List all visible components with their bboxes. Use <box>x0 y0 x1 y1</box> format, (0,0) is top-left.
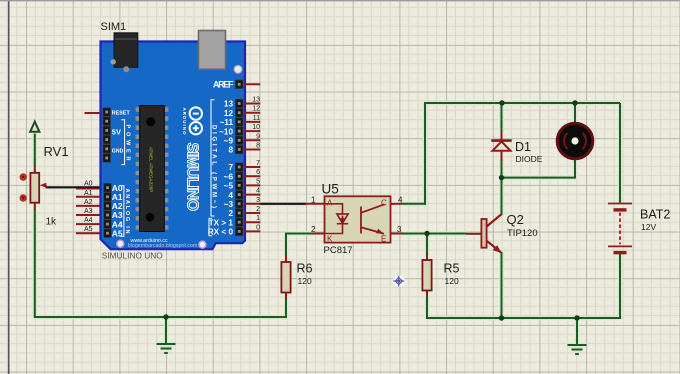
U5 internal LED <box>325 204 349 234</box>
Arduino digital pin 12 stub <box>244 112 260 114</box>
svg-text:3: 3 <box>256 197 260 204</box>
svg-text:C: C <box>381 199 387 208</box>
U5 pin 3 (E) <box>391 233 403 235</box>
transistor Q2 base stub <box>466 233 481 235</box>
wire R6 top up <box>285 234 287 257</box>
svg-text:120: 120 <box>298 276 312 286</box>
potentiometer RV1 adjust buttons <box>20 173 27 180</box>
wire halo layer <box>34 103 620 354</box>
resistor R6 body <box>281 262 290 293</box>
svg-text:ANALOG IN: ANALOG IN <box>124 189 130 234</box>
wire RV1 bottom down <box>34 210 36 318</box>
battery BAT2 dashed link <box>619 213 621 245</box>
svg-text:SIMULINO UNO: SIMULINO UNO <box>102 251 163 261</box>
Arduino digital pin 3 stub <box>244 203 260 205</box>
wire motor bottom link <box>502 177 576 179</box>
svg-text:D1: D1 <box>515 140 531 154</box>
wire top rail <box>424 102 620 104</box>
wire ground right stub <box>576 318 578 345</box>
Arduino board SIM1 outline <box>101 42 246 250</box>
svg-text:U5: U5 <box>322 182 339 197</box>
power terminal arrow above RV1 <box>30 122 39 132</box>
wire D1 bottom to junction <box>501 160 503 178</box>
svg-text:2: 2 <box>311 225 316 234</box>
Arduino logo <box>190 107 202 134</box>
svg-text:A: A <box>327 199 333 208</box>
svg-text:blogembarcado.blogspot.com: blogembarcado.blogspot.com <box>128 243 198 249</box>
Arduino power header pins <box>103 108 111 117</box>
Arduino TX RX bracket <box>209 218 212 235</box>
svg-text:A1: A1 <box>84 190 93 197</box>
wire R6 bottom <box>285 297 287 319</box>
Arduino analog header pins <box>104 183 112 192</box>
svg-text:E: E <box>381 235 386 244</box>
wire R6 to U5 pin K <box>285 233 313 235</box>
op-amp U5 optocoupler PC817 box <box>325 196 391 242</box>
svg-text:~5: ~5 <box>224 182 234 191</box>
svg-text:Q2: Q2 <box>507 212 524 227</box>
svg-text:13: 13 <box>224 100 234 109</box>
origin marker <box>393 275 405 287</box>
svg-text:6: 6 <box>256 169 260 176</box>
svg-text:9: 9 <box>256 133 260 140</box>
wire battery top <box>619 103 621 203</box>
wire R5 bottom <box>426 297 428 319</box>
svg-text:5V: 5V <box>112 128 121 137</box>
resistor R5 pins <box>426 254 428 260</box>
svg-text:12: 12 <box>252 106 260 113</box>
svg-text:12V: 12V <box>641 222 656 232</box>
node junction left rail / ground <box>163 314 168 319</box>
Arduino ANALOG IN bracket <box>121 186 124 237</box>
svg-text:~11: ~11 <box>220 118 234 127</box>
svg-text:10: 10 <box>252 124 260 131</box>
Arduino digital pin 8 stub <box>244 149 260 151</box>
svg-text:8: 8 <box>228 146 233 155</box>
svg-text:RESET: RESET <box>112 110 131 116</box>
node junction right rail / ground <box>574 315 579 320</box>
Arduino A2 pin stub <box>76 205 104 207</box>
svg-text:TIP120: TIP120 <box>507 228 538 239</box>
Arduino digital pin 10 stub <box>244 130 260 132</box>
resistor R6 pins <box>285 256 287 262</box>
svg-text:SIM1: SIM1 <box>101 21 127 33</box>
Arduino digital pin 1 stub <box>244 221 260 223</box>
Arduino digital pin 11 stub <box>244 121 260 123</box>
svg-text:~3: ~3 <box>224 200 234 209</box>
diode D1 cathode bar <box>491 139 511 142</box>
svg-text:1: 1 <box>256 215 260 222</box>
Arduino A0 pin stub <box>76 188 104 190</box>
wire motor top stub <box>574 103 576 123</box>
svg-text:4: 4 <box>256 188 260 195</box>
svg-text:1k: 1k <box>46 217 58 228</box>
svg-text:A2: A2 <box>84 199 93 206</box>
Arduino A3 pin stub <box>76 214 104 216</box>
svg-text:2: 2 <box>228 209 233 218</box>
svg-text:8: 8 <box>256 143 260 150</box>
Arduino digital header pins <box>235 80 243 89</box>
node junction R5 top <box>424 231 429 236</box>
resistor R5 body <box>422 260 431 291</box>
node junction Q2 emitter / rail <box>499 315 504 320</box>
wire U5 pin C up <box>424 103 426 205</box>
svg-text:K: K <box>327 235 333 244</box>
wire junction to R5 top <box>426 234 428 257</box>
Arduino digital pin 2 stub <box>244 212 260 214</box>
U5 pin 1 (A) <box>305 203 325 205</box>
svg-text:BAT2: BAT2 <box>640 208 670 222</box>
battery BAT2 plates <box>608 204 632 253</box>
svg-text:~9: ~9 <box>224 137 234 146</box>
diode D1 pins <box>501 131 503 140</box>
motor body <box>557 123 593 159</box>
sheet border top <box>0 0 680 2</box>
svg-text:DIODE: DIODE <box>516 154 543 164</box>
Arduino digital pin 9 stub <box>244 139 260 141</box>
wire bottom-left rail <box>34 316 286 318</box>
U5 pin 4 (C) <box>391 203 403 205</box>
svg-text:0: 0 <box>256 224 260 231</box>
diode D1 triangle <box>493 142 511 151</box>
svg-text:ATMEL: ATMEL <box>149 147 154 162</box>
Arduino DIGITAL PWM bracket <box>211 100 215 216</box>
svg-text:SIMULINO: SIMULINO <box>184 143 201 212</box>
Arduino power jack <box>114 33 138 68</box>
potentiometer RV1 wiper arrow <box>40 183 46 188</box>
svg-text:AREF: AREF <box>213 80 234 90</box>
wire battery bottom <box>619 254 621 320</box>
wire bottom-right rail <box>426 317 620 319</box>
svg-text:A5: A5 <box>84 226 93 233</box>
Arduino mounting hole bottom-mid <box>199 241 206 248</box>
wire RV1 top to power terminal <box>34 134 36 167</box>
svg-text:3: 3 <box>397 225 402 234</box>
Arduino mounting hole top-right <box>234 65 242 73</box>
svg-text:A3: A3 <box>84 208 93 215</box>
svg-text:TX > 1: TX > 1 <box>209 218 234 227</box>
svg-text:5: 5 <box>256 178 260 185</box>
potentiometer RV1 pins <box>34 165 36 210</box>
svg-text:A4: A4 <box>84 217 93 224</box>
wire D1 junction to Q2 collector <box>501 178 503 216</box>
svg-text:4: 4 <box>398 195 403 204</box>
Arduino digital pin 4 stub <box>244 194 260 196</box>
transistor Q2 collector <box>487 214 502 226</box>
wire U5 pin E to Q2 base <box>402 233 467 235</box>
svg-text:ARDUINO: ARDUINO <box>182 108 187 136</box>
Arduino USB connector <box>199 31 226 70</box>
Arduino RESET pin stub <box>85 112 105 114</box>
svg-text:R6: R6 <box>297 262 313 276</box>
wire motor bottom stub <box>574 159 576 179</box>
svg-text:~6: ~6 <box>224 172 234 181</box>
svg-text:PC817: PC817 <box>324 245 353 256</box>
node junction D1 / motor <box>499 175 504 180</box>
wire D1 top <box>501 103 503 132</box>
Arduino A5 pin stub <box>76 232 104 234</box>
Arduino POWER bracket <box>121 120 124 165</box>
ground (right) <box>568 345 587 354</box>
Arduino ATMEGA328 chip <box>136 106 169 232</box>
Arduino digital pin 7 stub <box>244 166 260 168</box>
svg-text:2: 2 <box>256 206 260 213</box>
svg-text:R5: R5 <box>444 262 460 276</box>
svg-text:ATMEGA328P: ATMEGA328P <box>149 163 154 192</box>
svg-text:A0: A0 <box>84 181 93 188</box>
svg-text:1: 1 <box>311 195 316 204</box>
transistor Q2 emitter <box>487 241 501 253</box>
Arduino A1 pin stub <box>76 196 104 198</box>
svg-text:13: 13 <box>252 97 260 104</box>
wire U5 pin C right <box>402 203 427 205</box>
Arduino mounting hole bottom-left <box>117 240 124 247</box>
wire RV1 wiper to Arduino A0 <box>46 185 105 190</box>
Arduino AREF pin stub <box>244 83 260 85</box>
node junction top rail / D1 <box>499 100 504 105</box>
transistor Q2 base bar <box>481 219 486 248</box>
motor brush arcs <box>564 133 568 149</box>
svg-text:12: 12 <box>224 109 234 118</box>
svg-text:120: 120 <box>445 276 459 286</box>
sheet border left <box>8 0 10 374</box>
potentiometer RV1 body <box>30 173 39 203</box>
wire Q2 emitter down <box>501 252 503 318</box>
svg-text:7: 7 <box>228 163 233 172</box>
svg-text:7: 7 <box>256 160 260 167</box>
svg-text:RV1: RV1 <box>44 144 69 159</box>
Arduino digital pin 0 stub <box>244 230 260 232</box>
Arduino A4 pin stub <box>76 223 104 225</box>
svg-text:11: 11 <box>253 115 260 122</box>
ground (left) <box>157 344 176 353</box>
wire ground left stub <box>165 317 167 344</box>
svg-text:~10: ~10 <box>219 127 233 136</box>
svg-text:4: 4 <box>228 191 233 200</box>
Arduino digital pin 13 stub <box>244 103 260 105</box>
wire Arduino pin3 to U5 pin A <box>260 202 307 207</box>
Arduino digital pin 5 stub <box>244 184 260 186</box>
Arduino digital pin 6 stub <box>244 175 260 177</box>
svg-text:GND: GND <box>112 148 124 154</box>
U5 internal phototransistor <box>361 204 385 234</box>
U5 pin 2 (K) <box>313 233 325 235</box>
node junction top rail / motor <box>572 100 577 105</box>
